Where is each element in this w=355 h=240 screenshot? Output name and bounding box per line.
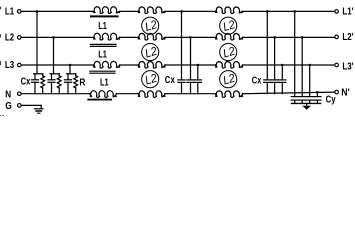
svg-text:L1': L1' — [342, 7, 353, 18]
wire L1 rail seg2 — [120, 10, 139, 12]
wire cap leg — [67, 74, 69, 80]
inductor L2 stage2 row L1 coil — [216, 7, 243, 13]
inductor L2 stage2 row N coil — [216, 91, 243, 97]
capacitor Cx right — [271, 79, 278, 81]
junction dot — [316, 91, 319, 94]
ground arrow (chassis) — [302, 106, 311, 110]
core bars L1 row3 (double) — [90, 70, 115, 72]
resistor R — [74, 76, 78, 88]
inductor L2 stage1 row L1 coil — [138, 7, 165, 14]
wire drop x=274.6 — [274, 37, 276, 79]
wire cap leg — [51, 74, 53, 80]
coil joins — [93, 11, 94, 12]
wire L3 rail seg4 — [243, 64, 335, 66]
choke label circled L2 — [220, 17, 237, 34]
wire drop x=37.0 — [36, 11, 38, 73]
wire L1 rail seg1 — [22, 10, 94, 12]
resistor R — [57, 76, 61, 88]
wire cap leg bottom — [51, 82, 53, 93]
capacitor Cx mid — [178, 79, 185, 81]
choke label circled L2 — [220, 71, 237, 88]
wire cap bottom — [197, 82, 199, 93]
wire Cy bottom leg — [309, 100, 311, 103]
wire cap bottom — [266, 82, 268, 93]
junction dot — [36, 10, 39, 13]
terminal L2 circle left — [18, 36, 22, 40]
wire drop x=282.3 — [281, 65, 283, 80]
capacitor Cx — [32, 79, 39, 81]
coil joins — [93, 37, 94, 39]
coil joins — [138, 11, 139, 12]
svg-text:L1: L1 — [98, 21, 107, 32]
wire L2 rail seg4 — [243, 36, 335, 38]
wire T-bar — [34, 73, 43, 75]
junction dot — [266, 10, 269, 13]
wire resistor leg bottom — [58, 88, 60, 94]
inductor L1 row L2 coil — [94, 33, 120, 40]
wire cap leg bottom — [34, 82, 36, 93]
coil joins — [215, 94, 216, 97]
wire cap bottom — [274, 82, 276, 93]
svg-text:Cy: Cy — [326, 95, 336, 106]
junction dot — [180, 10, 183, 13]
svg-text:G: G — [5, 101, 12, 112]
inductor L2 stage2 row L2 coil — [216, 34, 243, 40]
wire Cy drop x=317.4 — [316, 92, 318, 96]
coil joins — [138, 94, 139, 97]
terminal L2' circle right — [335, 35, 339, 39]
wire Cy bottom leg — [316, 100, 318, 103]
inductor L1 row L1 coil — [94, 7, 120, 14]
junction dot — [281, 64, 284, 67]
wire Cy drop x=302.2 — [301, 37, 303, 96]
wire resistor leg bottom — [42, 88, 44, 94]
wire Cy bottom bus — [291, 102, 320, 104]
terminal N' circle right — [335, 90, 339, 94]
wire drop x=190.5 — [190, 37, 192, 79]
wire L2 rail seg1 — [22, 36, 94, 38]
capacitor Cx right — [264, 79, 271, 81]
wire G — [22, 104, 42, 106]
capacitor Cy — [306, 96, 313, 98]
coil joins — [93, 65, 94, 67]
wire resistor leg — [42, 74, 44, 76]
svg-text:L1: L1 — [100, 78, 109, 89]
core bars L1 row2 (double) — [91, 43, 117, 45]
terminal N circle left — [18, 92, 22, 96]
wire Cy ground stub — [306, 103, 308, 106]
junction dot — [189, 36, 192, 39]
terminal L1 circle left — [18, 10, 22, 14]
capacitor Cy — [314, 96, 321, 98]
junction dot — [273, 36, 276, 39]
core bar L1 row N (thick) — [88, 99, 111, 101]
wire L3 rail seg3 — [165, 64, 216, 66]
wire T-bar — [50, 73, 59, 75]
svg-text:N: N — [5, 90, 11, 101]
wire N rail seg1 — [22, 93, 91, 95]
capacitor Cx right — [279, 79, 286, 81]
artifact tick left edge y62 — [0, 61, 1, 65]
wire L1 rail seg3 — [165, 10, 216, 12]
wire T-bar — [67, 73, 76, 75]
wire L2 rail seg2 — [120, 36, 139, 38]
capacitor Cy — [291, 96, 298, 98]
inductor L2 stage1 row N coil — [138, 91, 165, 98]
wire cap bottom — [281, 82, 283, 93]
junction dot — [293, 10, 296, 13]
ground G earth symbol — [34, 108, 43, 110]
coil joins — [138, 65, 139, 67]
inductor L2 stage2 row L3 coil — [216, 62, 243, 68]
wire cap bottom — [190, 82, 192, 93]
wire Cy bottom leg — [301, 100, 303, 103]
wire drop x=197.8 — [197, 65, 199, 80]
wire Cy drop x=294.7 — [294, 11, 296, 96]
capacitor Cx mid — [187, 79, 194, 81]
svg-text:Cx: Cx — [165, 75, 175, 86]
wire N rail seg2 — [116, 93, 138, 95]
svg-text:L1: L1 — [5, 7, 15, 18]
svg-text:Cx: Cx — [21, 77, 31, 88]
capacitor Cx — [65, 79, 72, 81]
svg-text:L2: L2 — [5, 32, 15, 43]
wire Cy bottom leg — [294, 100, 296, 103]
wire L3 rail seg2 — [120, 64, 139, 66]
svg-text:L3': L3' — [342, 61, 353, 72]
junction dot — [69, 64, 72, 67]
artifact tick left edge y35 — [0, 34, 1, 37]
wire resistor leg bottom — [75, 88, 77, 94]
terminal L3' circle right — [335, 63, 339, 67]
wire L2 rail seg3 — [165, 36, 216, 38]
core bar L1 row1 (thick) — [91, 15, 118, 17]
choke label circled L2 — [220, 44, 237, 61]
wire N rail seg3 — [165, 93, 216, 95]
wire N rail seg4 — [243, 92, 335, 94]
junction dot — [197, 64, 200, 67]
capacitor Cx mid — [194, 79, 201, 81]
svg-text:L3: L3 — [5, 60, 15, 71]
terminal G circle left — [18, 104, 22, 108]
coil joins — [90, 94, 91, 97]
choke label circled L2 — [142, 17, 159, 34]
coil joins — [215, 11, 216, 12]
wire drop x=267.3 — [266, 11, 268, 79]
coil joins — [215, 65, 216, 67]
wire L1 rail seg4 — [243, 10, 335, 12]
choke label circled L2 — [142, 71, 159, 88]
capacitor Cy — [299, 96, 306, 98]
wire drop x=181.5 — [181, 11, 183, 79]
inductor L2 stage1 row L3 coil — [138, 62, 165, 69]
inductor L2 stage1 row L2 coil — [138, 33, 165, 40]
coil joins — [215, 37, 216, 39]
junction dot — [52, 36, 55, 39]
wire resistor leg — [75, 74, 77, 76]
artifact tick left edge y7 — [0, 7, 1, 10]
coil joins — [138, 37, 139, 39]
resistor R — [41, 76, 45, 88]
svg-text:N': N' — [341, 88, 349, 99]
inductor L1 row N coil — [90, 91, 116, 98]
wire drop x=53.5 — [53, 37, 55, 73]
junction dot — [301, 36, 304, 39]
svg-text:L2': L2' — [342, 32, 353, 43]
choke label circled L2 — [142, 44, 159, 61]
terminal L1' circle right — [335, 10, 339, 14]
wire L3 rail seg1 — [22, 64, 94, 66]
svg-text:L1: L1 — [98, 49, 107, 60]
wire Cy drop x=309.7 — [309, 65, 311, 96]
wire resistor leg — [58, 74, 60, 76]
wire cap leg bottom — [67, 82, 69, 93]
capacitor Cx — [48, 79, 55, 81]
artifact pixels bottom-left — [0, 115, 1, 116]
wire drop x=70.0 — [69, 65, 71, 74]
inductor L1 row L3 coil — [94, 61, 120, 68]
svg-text:R: R — [79, 78, 86, 89]
junction dot — [308, 64, 311, 67]
wire cap leg — [34, 74, 36, 80]
wire cap bottom — [181, 82, 183, 93]
svg-text:Cx: Cx — [252, 75, 262, 86]
terminal L3 circle left — [18, 63, 22, 67]
